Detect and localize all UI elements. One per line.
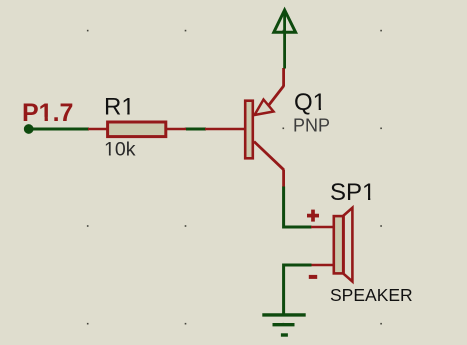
svg-text:10k: 10k bbox=[104, 139, 136, 161]
svg-text:SPEAKER: SPEAKER bbox=[330, 285, 413, 305]
plus marker bbox=[307, 210, 319, 222]
speaker SP1 bbox=[311, 208, 352, 282]
svg-text:SP1: SP1 bbox=[330, 179, 375, 206]
node P1.7 terminal bbox=[24, 124, 34, 134]
svg-text:P1.7: P1.7 bbox=[22, 99, 73, 127]
svg-text:R1: R1 bbox=[104, 94, 135, 121]
wire bbox=[29, 128, 89, 131]
transistor Q1 bbox=[205, 68, 284, 187]
wire bbox=[186, 128, 206, 131]
wire bbox=[284, 265, 312, 315]
svg-text:PNP: PNP bbox=[293, 116, 330, 136]
minus marker bbox=[309, 275, 317, 279]
ground bbox=[262, 315, 305, 335]
power symbol bbox=[274, 10, 296, 69]
svg-text:Q1: Q1 bbox=[294, 89, 326, 116]
wire bbox=[284, 187, 312, 228]
resistor R1 bbox=[88, 122, 186, 137]
